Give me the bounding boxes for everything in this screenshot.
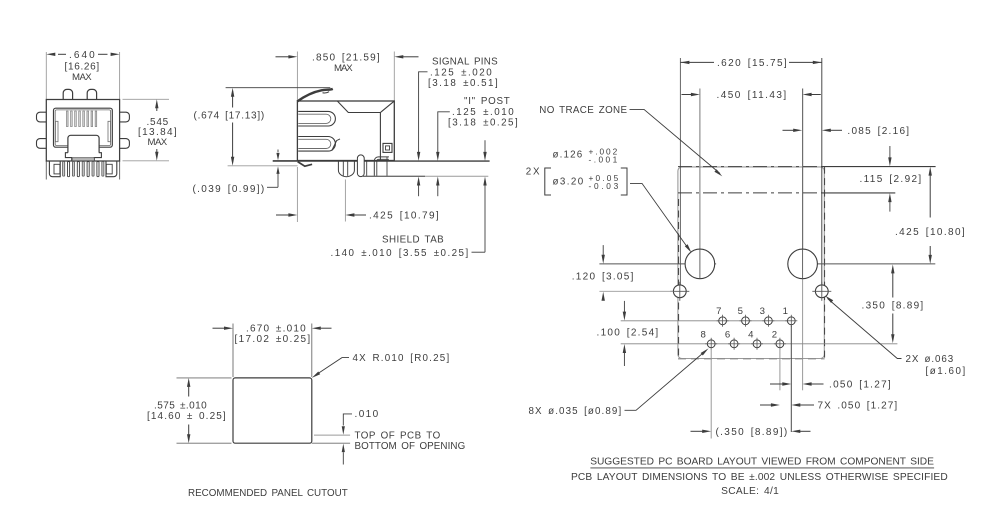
front view: top latch posts <box>63 89 72 99</box>
svg-text:.010: .010 <box>355 409 379 420</box>
dim .010 pcb-to-opening offset <box>314 434 350 436</box>
svg-text:5: 5 <box>738 306 744 317</box>
dim .425 [10.79] tab position <box>344 180 346 222</box>
svg-text:ø.126: ø.126 <box>553 150 583 161</box>
svg-text:MAX: MAX <box>148 137 168 148</box>
svg-text:[14.60 ± 0.25]: [14.60 ± 0.25] <box>147 411 226 422</box>
svg-text:7X .050 [1.27]: 7X .050 [1.27] <box>818 401 898 412</box>
pcb: pin 8 extension line down <box>710 348 712 438</box>
svg-text:.125 ±.010: .125 ±.010 <box>452 107 514 118</box>
pcb: pin 2 extension line down <box>779 348 781 390</box>
dim .450 [11.43] <box>682 94 692 96</box>
svg-text:.450 [11.43]: .450 [11.43] <box>717 90 787 101</box>
pcb: solder pin holes row 2 (8,6,4,2) <box>707 340 715 348</box>
svg-text:.085 [2.16]: .085 [2.16] <box>847 126 909 137</box>
side view: pin bottom line <box>363 175 425 177</box>
pcb: .620 extension lines (pad columns) <box>679 58 681 285</box>
pcb: big mounting hole right <box>788 249 818 279</box>
svg-text:PCB LAYOUT DIMENSIONS TO BE ±.: PCB LAYOUT DIMENSIONS TO BE ±.002 UNLESS… <box>571 472 948 483</box>
pcb: pin 1 extension line down <box>790 325 792 432</box>
dim .575 +/-.010 cutout height <box>177 377 232 379</box>
side view: rear hood facet <box>337 101 394 113</box>
pcb: big hole centerlines (.450 extensions) <box>699 89 701 264</box>
side view: lower EMI slot with tail flick <box>298 137 335 152</box>
svg-text:-0.03: -0.03 <box>589 181 619 191</box>
svg-text:8: 8 <box>700 330 706 341</box>
svg-text:SIGNAL PINS: SIGNAL PINS <box>432 57 498 68</box>
svg-text:[ø1.60]: [ø1.60] <box>926 366 966 377</box>
pcb: small hole right (dia .063) with crosshair <box>815 285 828 298</box>
svg-text:.425 [10.80]: .425 [10.80] <box>895 227 965 238</box>
svg-text:RECOMMENDED PANEL CUTOUT: RECOMMENDED PANEL CUTOUT <box>188 488 348 499</box>
note SHIELD TAB .140 +/-.010 with leader <box>472 251 486 253</box>
dim .670 +/-.010 cutout width <box>213 327 225 329</box>
dim .425 [10.80] right side <box>929 171 931 218</box>
side view: body outline <box>297 101 394 161</box>
svg-text:NO TRACE ZONE: NO TRACE ZONE <box>539 105 627 116</box>
pcb: dashed body outline bottom <box>678 358 825 360</box>
svg-text:1: 1 <box>783 306 789 317</box>
pcb: no-trace zone upper boundary (dash-dot + solid) <box>678 166 823 168</box>
svg-text:[17.02 ±0.25]: [17.02 ±0.25] <box>235 334 311 345</box>
side view: right extension line <box>393 52 395 101</box>
dim arrows at shield tab right pair <box>484 140 486 152</box>
svg-text:2: 2 <box>772 330 778 341</box>
pcb: gray body footprint box <box>678 167 824 359</box>
pcb: small hole left (dia .063) with crosshair <box>673 285 686 298</box>
side view: upper EMI slot <box>298 111 335 126</box>
svg-text:4X R.010 [R0.25]: 4X R.010 [R0.25] <box>353 353 450 364</box>
dim (.039 [0.99]) standoff height <box>277 150 279 153</box>
svg-text:(.674 [17.13]): (.674 [17.13]) <box>194 110 265 121</box>
svg-text:2X ø.063: 2X ø.063 <box>906 354 954 365</box>
svg-text:-.001: -.001 <box>589 154 618 164</box>
panel cutout: top extension lines <box>232 324 234 378</box>
pcb: no-trace zone lower boundary <box>678 192 823 194</box>
pcb: big mounting hole left (2X dia .126) <box>685 249 715 279</box>
svg-text:MAX: MAX <box>334 63 353 74</box>
svg-text:[16.26]: [16.26] <box>65 61 100 72</box>
svg-text:.640: .640 <box>69 50 95 61</box>
dim .350 [8.89] right <box>892 270 894 298</box>
front view: 8 contact fingers <box>66 111 68 127</box>
svg-text:[3.18 ±0.51]: [3.18 ±0.51] <box>428 78 498 89</box>
svg-text:.425 [10.79]: .425 [10.79] <box>369 211 439 222</box>
svg-text:8X ø.035 [ø0.89]: 8X ø.035 [ø0.89] <box>529 406 622 417</box>
side view: front panel tab line <box>273 160 298 162</box>
svg-text:.850 [21.59]: .850 [21.59] <box>312 52 380 63</box>
front view: port opening (double outline) <box>54 108 113 147</box>
side view: I-post (capsule) <box>357 155 364 177</box>
panel cutout: square opening <box>233 378 312 443</box>
svg-text:3: 3 <box>760 306 766 317</box>
svg-text:"I" POST: "I" POST <box>464 96 510 107</box>
side view: shield tab bump below board <box>338 161 354 176</box>
dim (.674 [17.13]) overall height <box>226 87 331 89</box>
svg-text:.100 [2.54]: .100 [2.54] <box>597 328 659 339</box>
svg-text:.350 [8.89]: .350 [8.89] <box>862 301 924 312</box>
dim .100 [2.54] <box>623 301 625 312</box>
side view: PCB top surface line <box>297 160 489 162</box>
side view: front tab hook <box>298 162 313 167</box>
dim .620 [15.75] <box>680 61 689 64</box>
pcb: solder pin holes row 1 (7,5,3,1) <box>719 317 727 325</box>
svg-text:SHIELD TAB: SHIELD TAB <box>382 235 444 246</box>
svg-text:BOTTOM OF OPENING: BOTTOM OF OPENING <box>355 441 466 452</box>
front view: jack body outline <box>46 100 119 162</box>
svg-text:ø3.20: ø3.20 <box>553 177 584 188</box>
svg-text:[3.18 ±0.25]: [3.18 ±0.25] <box>448 118 518 129</box>
front view: right EMI tabs <box>120 112 130 122</box>
svg-text:SCALE: 4/1: SCALE: 4/1 <box>721 486 779 497</box>
svg-text:4: 4 <box>748 330 754 341</box>
svg-text:SUGGESTED PC BOARD LAYOUT VIEW: SUGGESTED PC BOARD LAYOUT VIEWED FROM CO… <box>590 457 934 468</box>
dim .120 [3.05] <box>599 290 673 292</box>
note 2X dia .063 with leader to small hole <box>825 296 833 303</box>
dim 7X .050 [1.27] pin pitch <box>760 404 772 406</box>
svg-text:2X: 2X <box>526 167 540 178</box>
svg-text:(.350 [8.89]): (.350 [8.89]) <box>716 427 788 438</box>
svg-text:(.039 [0.99]): (.039 [0.99]) <box>193 184 265 195</box>
side view: left extension line <box>296 52 298 100</box>
svg-text:7: 7 <box>716 306 722 317</box>
svg-text:.620 [15.75]: .620 [15.75] <box>717 58 787 69</box>
side view: signal pin shapes <box>366 161 368 176</box>
side view: latch spring whisker <box>297 89 333 102</box>
svg-text:.120 [3.05]: .120 [3.05] <box>572 272 634 283</box>
pcb: hole center horizontal lines <box>599 263 716 265</box>
svg-text:.140 ±.010 [3.55 ±0.25]: .140 ±.010 [3.55 ±0.25] <box>331 248 469 259</box>
dim .115 [2.92] <box>889 146 891 158</box>
leader from 2X note to left big hole <box>630 183 689 249</box>
dim .050 [1.27] pin1 to hole center <box>770 383 783 385</box>
dim .085 [2.16] <box>783 129 795 131</box>
pcb: pin row reference lines <box>621 320 792 322</box>
dim (.350 [8.89]) pin span <box>691 430 703 432</box>
front view: side window nubs inside opening <box>55 121 58 141</box>
front view: bottom shield legs row <box>49 162 60 177</box>
svg-text:.050 [1.27]: .050 [1.27] <box>829 380 891 391</box>
front view: center latch tab with flange <box>68 135 99 152</box>
dim .850 [21.59] MAX (side length) <box>276 56 289 58</box>
dim (.674) bottom extension line <box>228 165 298 167</box>
svg-text:TOP OF PCB TO: TOP OF PCB TO <box>355 430 441 441</box>
svg-text:6: 6 <box>725 330 731 341</box>
dim .545 [13.84] MAX (front height) <box>123 98 170 100</box>
dim .640 [16.26] MAX (front width) <box>58 53 66 55</box>
pcb: dashed body outline verticals <box>678 199 680 358</box>
side view: rear square hole detail <box>383 143 392 152</box>
svg-text:MAX: MAX <box>72 72 92 83</box>
front view: extension lines for .640 width dim <box>45 52 47 100</box>
front view: left EMI tabs <box>37 112 47 122</box>
